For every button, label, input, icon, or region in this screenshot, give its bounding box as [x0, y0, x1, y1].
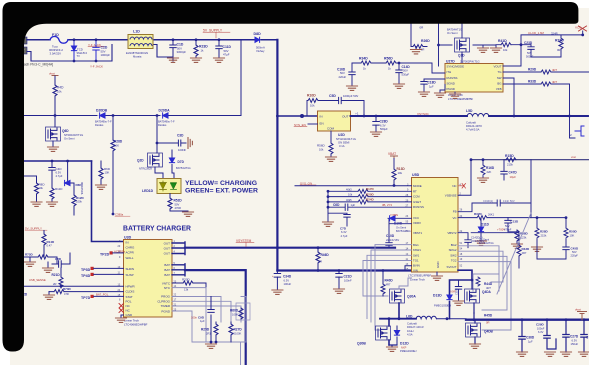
capacitor C29D — [544, 320, 556, 349]
resistor R11D — [51, 180, 53, 202]
svg-text:On Semi: On Semi — [396, 226, 407, 230]
resistor R43D — [518, 233, 520, 268]
capacitor C9D — [208, 297, 214, 343]
svg-text:4R7: 4R7 — [552, 80, 558, 84]
capacitor C47D — [501, 160, 507, 180]
resistor R17D on RT — [328, 190, 412, 192]
svg-text:Murata: Murata — [133, 54, 142, 58]
transistor Q30B — [376, 326, 391, 340]
svg-text:C3D: C3D — [177, 134, 184, 138]
capacitor C45D — [537, 247, 569, 259]
ground (R6D) — [96, 185, 107, 189]
svg-text:R11D: R11D — [55, 187, 63, 191]
connector pin 2 glyph — [575, 126, 584, 136]
svg-text:vbat: vbat — [575, 308, 581, 312]
svg-text:D7D: D7D — [178, 160, 185, 164]
svg-text:VSYS3C: VSYS3C — [417, 112, 430, 116]
svg-text:C23D: C23D — [524, 41, 533, 45]
resistor R33D on BG wire — [503, 84, 575, 138]
capacitor C4D — [49, 161, 55, 180]
svg-text:Q2D: Q2D — [137, 159, 144, 163]
svg-text:R16D: R16D — [486, 166, 495, 170]
svg-text:R75D: R75D — [25, 253, 34, 257]
svg-text:ILSET: ILSET — [413, 200, 421, 204]
svg-text:1µF: 1µF — [528, 340, 533, 344]
wire HPWR — [24, 285, 124, 287]
svg-text:470R: 470R — [175, 206, 181, 210]
svg-text:BATTERY CHARGER: BATTERY CHARGER — [123, 224, 191, 233]
svg-text:SVOUT: SVOUT — [447, 265, 457, 269]
U3D pin numbers — [118, 240, 177, 312]
resistor R28D — [111, 140, 115, 151]
svg-text:Y-5BN: Y-5BN — [390, 213, 398, 217]
svg-text:STAT: STAT — [126, 295, 133, 299]
svg-text:SYNC/MODE: SYNC/MODE — [447, 65, 465, 69]
svg-text:C27D: C27D — [570, 335, 579, 339]
svg-text:3.1A: 3.1A — [339, 144, 345, 148]
svg-text:TP3D: TP3D — [81, 268, 91, 272]
svg-text:40k3: 40k3 — [346, 187, 352, 191]
svg-text:22K: 22K — [487, 170, 492, 174]
svg-text:6.3V: 6.3V — [341, 230, 347, 234]
fuse F1D — [50, 36, 68, 43]
svg-text:R29D: R29D — [528, 68, 537, 72]
svg-text:SW: SW — [497, 76, 502, 80]
diode D11D — [480, 218, 482, 241]
svg-text:C8D: C8D — [55, 257, 62, 261]
svg-text:VBAT: VBAT — [388, 152, 396, 156]
capacitor C2D — [93, 40, 99, 61]
svg-text:470pF: 470pF — [504, 227, 512, 231]
NC pin mark — [459, 184, 466, 189]
wire VSYSTEM rail — [185, 247, 395, 249]
capacitor C3D — [157, 142, 186, 144]
ground (NTC loop) — [210, 341, 213, 344]
svg-text:TG2: TG2 — [451, 259, 457, 263]
wire output bus — [466, 319, 589, 321]
wire BAT rail to bottom — [185, 270, 246, 365]
svg-text:SW1: SW1 — [413, 253, 420, 257]
resistor R28D — [536, 218, 538, 247]
svg-text:3300pF: 3300pF — [177, 50, 187, 54]
svg-text:100K2: 100K2 — [232, 312, 240, 316]
svg-text:VIN: VIN — [413, 268, 418, 272]
wire VSYSTEM to VIN rail — [277, 269, 411, 271]
resistor R75D — [24, 256, 57, 258]
svg-text:10µF: 10µF — [510, 175, 517, 179]
svg-text:50V: 50V — [527, 51, 532, 55]
svg-text:Coilcraft: Coilcraft — [466, 120, 476, 124]
svg-text:IN: IN — [320, 115, 323, 119]
transistor Q30A — [390, 289, 405, 303]
svg-text:R43D: R43D — [522, 247, 531, 251]
svg-text:R6D: R6D — [104, 167, 111, 171]
svg-text:PGND: PGND — [161, 309, 171, 313]
svg-text:2R: 2R — [53, 282, 56, 286]
svg-text:PMEG2020EJ: PMEG2020EJ — [400, 349, 417, 353]
svg-text:Q30B: Q30B — [357, 342, 366, 346]
resistor R30D on VNTC — [172, 283, 206, 288]
svg-text:SYS_ON: SYS_ON — [300, 181, 312, 185]
ground (R23D) — [191, 58, 202, 62]
capacitor C8D — [52, 253, 70, 267]
svg-text:6.3V: 6.3V — [572, 338, 578, 342]
svg-text:4.7µF: 4.7µF — [341, 234, 348, 238]
wire gate-drive nest left — [363, 245, 412, 330]
diode D20DB — [100, 113, 105, 118]
svg-text:5V_SUPPLY: 5V_SUPPLY — [203, 29, 223, 33]
svg-text:3-LCD_1.6M: 3-LCD_1.6M — [528, 31, 545, 35]
svg-text:Coilcraft: Coilcraft — [407, 322, 417, 326]
resistor R21D — [60, 268, 62, 288]
svg-text:500pF: 500pF — [526, 54, 534, 58]
svg-text:R8D: R8D — [39, 183, 46, 187]
svg-text:C21D: C21D — [344, 275, 353, 279]
svg-text:R25D: R25D — [201, 328, 210, 332]
svg-text:50V: 50V — [175, 202, 180, 206]
svg-text:VNTC: VNTC — [162, 281, 171, 285]
svg-text:0.47: 0.47 — [47, 244, 53, 248]
svg-text:50V: 50V — [572, 250, 577, 254]
svg-text:D12D: D12D — [400, 342, 409, 346]
svg-text:CLDIS: CLDIS — [126, 290, 135, 294]
svg-text:Y-F JACK: Y-F JACK — [88, 43, 101, 47]
svg-text:26K1: 26K1 — [488, 212, 495, 216]
svg-text:Linear Tech: Linear Tech — [410, 277, 425, 281]
svg-text:10K: 10K — [570, 233, 575, 237]
svg-text:R50D: R50D — [569, 230, 578, 234]
capacitor C18D — [421, 79, 445, 92]
svg-text:LTC4066EDHPBF: LTC4066EDHPBF — [124, 323, 148, 327]
svg-text:1µF: 1µF — [351, 203, 356, 207]
svg-text:NTR(2)929: NTR(2)929 — [139, 167, 152, 171]
capacitor C28D — [375, 116, 377, 131]
svg-text:BAT54HT1G: BAT54HT1G — [396, 229, 411, 233]
svg-text:13k: 13k — [184, 288, 189, 292]
resistor R52D — [170, 194, 188, 213]
svg-text:R40D: R40D — [385, 279, 394, 283]
wire VC rail — [458, 217, 566, 219]
wire BAT bracket — [172, 264, 185, 276]
svg-text:Vishay: Vishay — [256, 49, 265, 53]
svg-text:3B, 2Y3: 3B, 2Y3 — [382, 203, 392, 207]
svg-text:SHDN: SHDN — [126, 267, 135, 271]
transistor Q4DA — [465, 289, 480, 303]
svg-text:50V: 50V — [403, 69, 408, 73]
ground (bundle) — [327, 213, 329, 222]
svg-text:D8D: D8D — [254, 32, 262, 36]
svg-text:4R7: 4R7 — [552, 68, 558, 72]
svg-text:BAT: BAT — [164, 263, 170, 267]
svg-text:ACPR: ACPR — [126, 251, 135, 255]
svg-text:R46D: R46D — [321, 253, 330, 257]
svg-text:Diodes: Diodes — [95, 123, 104, 127]
snubber box C19D — [458, 160, 531, 218]
svg-text:100uF: 100uF — [537, 326, 545, 330]
svg-text:RUN/SS: RUN/SS — [413, 205, 424, 209]
ground (R52D) — [183, 212, 194, 216]
svg-text:CLPROG: CLPROG — [157, 299, 170, 303]
svg-text:VSENSE: VSENSE — [445, 193, 457, 197]
svg-text:150uF: 150uF — [571, 342, 579, 346]
svg-text:C7D: C7D — [340, 227, 347, 231]
svg-text:C36D: C36D — [526, 336, 535, 340]
diode D10D on VCC — [388, 218, 412, 224]
ground (R16D) — [478, 178, 489, 182]
svg-text:NXP: NXP — [401, 345, 407, 349]
svg-text:FB: FB — [453, 209, 457, 213]
svg-text:On Semi: On Semi — [447, 31, 458, 35]
svg-text:R24D: R24D — [366, 198, 375, 202]
svg-text:50V: 50V — [340, 71, 345, 75]
svg-text:5V_SUPPLY: 5V_SUPPLY — [25, 227, 42, 231]
svg-text:6.3V: 6.3V — [380, 123, 386, 127]
svg-text:OUT: OUT — [164, 241, 171, 245]
svg-text:SYS_EN: SYS_EN — [294, 123, 306, 127]
svg-text:100n: 100n — [191, 316, 197, 320]
svg-text:D20DA: D20DA — [159, 109, 171, 113]
svg-text:OUT: OUT — [342, 115, 349, 119]
resistor R6D — [100, 161, 102, 185]
svg-text:10uH: 10uH — [407, 329, 413, 333]
resistor R44D — [476, 277, 480, 286]
svg-text:C142D(1): C142D(1) — [471, 235, 483, 239]
svg-text:R73D: R73D — [63, 287, 72, 291]
resistor R13D — [393, 159, 395, 186]
svg-text:100uF: 100uF — [284, 282, 292, 286]
diagonal wire — [497, 213, 531, 294]
svg-text:NTC: NTC — [164, 286, 171, 290]
svg-text:D10D: D10D — [394, 222, 403, 226]
svg-text:U2D: U2D — [338, 133, 345, 137]
connector J1D — [19, 37, 27, 54]
svg-text:L5D: L5D — [466, 109, 473, 113]
svg-text:SGND: SGND — [447, 81, 455, 85]
svg-text:C18D: C18D — [428, 81, 437, 85]
box R44D — [473, 274, 499, 291]
svg-text:MBR0520L: MBR0520L — [80, 182, 84, 196]
svg-text:100NF: 100NF — [178, 148, 186, 152]
svg-text:C10D: C10D — [386, 234, 395, 238]
ground (left cluster b) — [47, 262, 49, 268]
capacitor C5D — [339, 97, 364, 116]
svg-text:R34D: R34D — [359, 57, 368, 61]
grounds under Q1D — [483, 45, 496, 48]
svg-text:NC: NC — [452, 184, 456, 188]
resistor R23D — [195, 40, 197, 58]
wire horizontal rail y161 — [24, 160, 92, 162]
capacitor C7D — [344, 215, 350, 227]
svg-text:C6D: C6D — [333, 203, 340, 207]
svg-text:0R: 0R — [557, 48, 560, 52]
svg-text:10k: 10k — [39, 186, 44, 190]
node C380a — [112, 213, 115, 216]
svg-text:220uF: 220uF — [339, 75, 347, 79]
svg-text:C28D: C28D — [380, 120, 389, 124]
svg-text:HPWR: HPWR — [126, 284, 136, 288]
svg-text:DR127-100-R: DR127-100-R — [407, 325, 424, 329]
svg-text:R44D: R44D — [484, 282, 493, 286]
svg-text:1000pF: 1000pF — [101, 53, 111, 57]
svg-text:VBST1: VBST1 — [413, 231, 423, 235]
resistor R32D — [477, 216, 487, 220]
svg-text:U5D: U5D — [412, 173, 420, 177]
svg-text:BVIN: BVIN — [413, 264, 420, 268]
svg-text:BAT54HT1G: BAT54HT1G — [176, 166, 191, 170]
ground (R56D) — [326, 157, 337, 161]
svg-text:VBST2: VBST2 — [447, 231, 457, 235]
transistor Q4DB — [466, 323, 481, 337]
wire sense rail — [471, 159, 589, 161]
transistor Q2D — [148, 153, 163, 167]
svg-text:215k: 215k — [541, 233, 547, 237]
svg-text:220nF/16V: 220nF/16V — [386, 238, 399, 242]
svg-text:TP4D: TP4D — [81, 274, 91, 278]
wire VSENSE up to sense rail — [458, 160, 471, 196]
capacitor C1D — [170, 40, 176, 58]
svg-text:RUN/SS: RUN/SS — [447, 76, 458, 80]
svg-text:R20D: R20D — [366, 192, 375, 196]
svg-text:Y-F JACK: Y-F JACK — [90, 65, 103, 69]
capacitor C11D — [216, 40, 222, 58]
wire bundle bus — [328, 191, 347, 214]
capacitor C6D on RUN/SS — [328, 204, 412, 210]
svg-text:560µF: 560µF — [380, 127, 388, 131]
wire main vertical bus VSYSTEM — [276, 40, 278, 271]
svg-text:GND: GND — [436, 262, 440, 268]
wire GVOUT to switch node — [450, 270, 473, 319]
svg-text:L1D: L1D — [133, 30, 140, 34]
svg-text:BG1: BG1 — [413, 243, 419, 247]
wire NTC loop — [172, 288, 246, 365]
svg-text:C13D: C13D — [511, 219, 520, 223]
capacitor C26D (edge) — [581, 320, 587, 352]
svg-text:USB_SENSE: USB_SENSE — [29, 278, 46, 282]
svg-text:R15D: R15D — [505, 154, 514, 158]
U5D pin numbers — [406, 183, 463, 271]
svg-text:R27D: R27D — [234, 328, 243, 332]
wire vertical feed to charger — [92, 161, 124, 242]
ground (U5D) — [436, 272, 438, 276]
svg-text:Q30A: Q30A — [407, 295, 416, 299]
svg-text:BAT54Ew-7-F: BAT54Ew-7-F — [95, 120, 112, 124]
svg-text:VC: VC — [452, 216, 456, 220]
svg-text:2R1: 2R1 — [206, 331, 211, 335]
svg-text:R12D: R12D — [76, 196, 85, 200]
svg-text:100nF: 100nF — [344, 278, 352, 282]
svg-text:R14D: R14D — [47, 240, 56, 244]
svg-text:4.5A: 4.5A — [407, 332, 413, 336]
ground (R26D) — [415, 47, 417, 50]
svg-text:C4D: C4D — [56, 167, 63, 171]
capacitor C13D — [505, 218, 517, 232]
svg-text:NTR2101P/T1G: NTR2101P/T1G — [64, 133, 83, 137]
svg-text:10k: 10k — [503, 48, 508, 52]
svg-text:RT: RT — [413, 189, 417, 193]
svg-text:CHRG: CHRG — [126, 246, 135, 250]
svg-text:YELLOW= CHARGING: YELLOW= CHARGING — [185, 180, 257, 187]
svg-text:SW2: SW2 — [450, 253, 457, 257]
svg-text:WALL: WALL — [126, 256, 134, 260]
svg-text:R52D: R52D — [174, 199, 183, 203]
svg-text:BAT54Ew-7-F: BAT54Ew-7-F — [158, 120, 175, 124]
svg-text:SRG2: SRG2 — [449, 248, 457, 252]
svg-text:40k5: 40k5 — [346, 198, 352, 202]
svg-text:6SW1: 6SW1 — [413, 248, 421, 252]
svg-text:LTC1700EMS8PBF: LTC1700EMS8PBF — [448, 97, 473, 101]
svg-text:LED1D: LED1D — [142, 189, 154, 193]
svg-text:C35D: C35D — [455, 288, 459, 295]
svg-text:GREEN= EXT. POWER: GREEN= EXT. POWER — [185, 188, 258, 195]
svg-text:F1D: F1D — [52, 33, 59, 37]
svg-text:5100K: 5100K — [234, 331, 242, 335]
resistor R56D (U2D COM) — [330, 131, 332, 157]
resistor R4D — [54, 76, 56, 116]
svg-text:BG2: BG2 — [451, 243, 457, 247]
svg-text:mach Pin3-C_M0[4A]: mach Pin3-C_M0[4A] — [21, 63, 53, 67]
svg-text:6.3V: 6.3V — [538, 330, 544, 334]
svg-text:VCC: VCC — [413, 216, 419, 220]
capacitor C36D — [519, 320, 525, 352]
svg-text:1µF: 1µF — [429, 84, 434, 88]
svg-text:4R7: 4R7 — [386, 282, 391, 286]
svg-text:220pF: 220pF — [571, 254, 579, 258]
svg-text:ITH: ITH — [447, 70, 452, 74]
ground (U3D GND) — [121, 315, 124, 318]
ground (left cluster a) — [29, 257, 31, 262]
svg-text:10k: 10k — [319, 148, 324, 152]
svg-text:4R7: 4R7 — [522, 251, 527, 255]
svg-text:1µF: 1µF — [200, 319, 205, 323]
svg-text:R30D: R30D — [182, 278, 191, 282]
svg-text:VOUT: VOUT — [493, 65, 501, 69]
capacitor C23D — [528, 45, 561, 57]
svg-text:GND: GND — [126, 313, 134, 317]
svg-text:D20DB: D20DB — [96, 109, 108, 113]
svg-text:TV: TV — [77, 54, 81, 58]
svg-text:Q4DA: Q4DA — [482, 290, 492, 294]
svg-text:10K: 10K — [105, 171, 110, 175]
svg-text:C14D: C14D — [402, 65, 411, 69]
diode D7D — [172, 150, 174, 179]
wire sense line from top rail down and across — [24, 40, 241, 116]
inductor L1D (common-mode choke) — [128, 35, 153, 49]
resistor R60D — [236, 303, 250, 320]
resistor R20D on CCM — [328, 196, 412, 198]
resistor R24D on ILSET — [328, 201, 412, 203]
svg-text:BAT_POL: BAT_POL — [96, 293, 109, 297]
ground (Q6D) — [48, 147, 59, 151]
svg-text:47µF: 47µF — [223, 53, 230, 57]
svg-text:VDRV: VDRV — [413, 221, 421, 225]
resistor R37D — [560, 35, 562, 57]
svg-text:C9D: C9D — [198, 316, 205, 320]
svg-text:C29D: C29D — [536, 323, 545, 327]
svg-text:C34D: C34D — [283, 275, 292, 279]
svg-text:4.7µF: 4.7µF — [56, 174, 63, 178]
svg-text:VSYSTEM: VSYSTEM — [236, 239, 252, 243]
svg-text:U27D: U27D — [446, 60, 455, 64]
svg-text:10k: 10k — [310, 104, 315, 108]
svg-text:R56D: R56D — [317, 144, 326, 148]
capacitor C10D — [386, 224, 392, 248]
resistor R25D — [214, 324, 218, 335]
resistor R38D — [516, 230, 518, 244]
svg-text:DR124-4R7#: DR124-4R7# — [466, 124, 482, 128]
resistor R50D — [565, 218, 567, 247]
svg-text:13nF 50V: 13nF 50V — [503, 199, 515, 203]
svg-text:C45D: C45D — [571, 246, 580, 250]
